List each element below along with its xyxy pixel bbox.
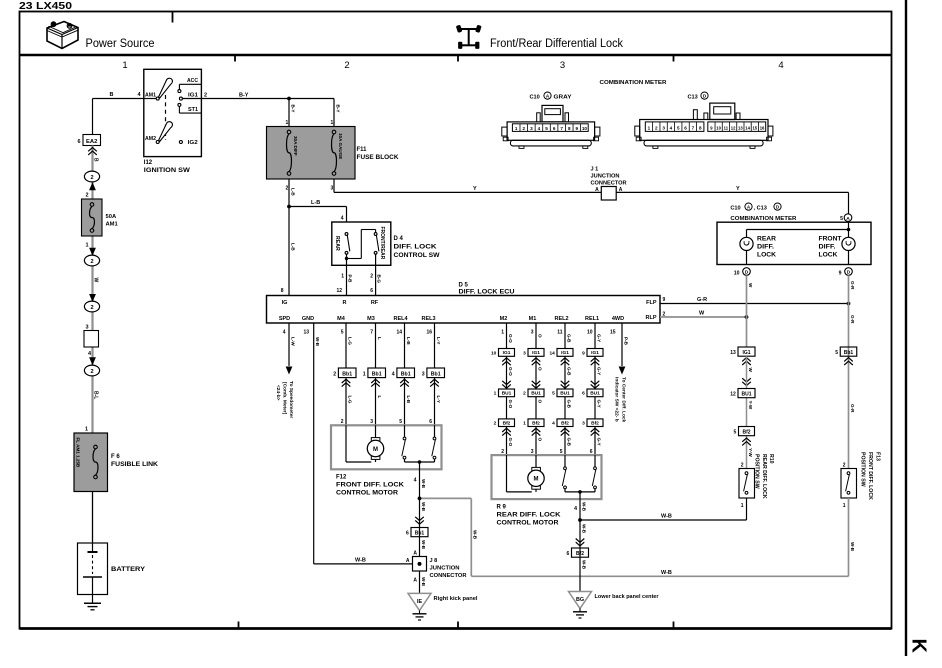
svg-text:1: 1 xyxy=(501,330,504,336)
connector C10 label xyxy=(530,92,572,100)
svg-text:7: 7 xyxy=(370,330,373,336)
svg-text:IG1: IG1 xyxy=(532,350,540,356)
svg-text:16: 16 xyxy=(426,330,432,336)
meter internal wiring xyxy=(747,228,851,238)
svg-text:2: 2 xyxy=(90,305,93,311)
svg-text:11: 11 xyxy=(724,126,729,131)
svg-text:M4: M4 xyxy=(337,316,346,322)
connector 6 Bb1 ground xyxy=(406,528,428,537)
wire O segments col2 xyxy=(536,323,542,455)
junction connector J1 xyxy=(591,167,627,201)
wire W segments r10 xyxy=(746,356,748,468)
junction dot L-B xyxy=(287,205,291,209)
svg-text:50A: 50A xyxy=(106,214,117,220)
svg-text:G-R: G-R xyxy=(850,281,855,290)
wire L-W speedometer xyxy=(286,323,296,375)
svg-text:F12: F12 xyxy=(336,475,347,481)
svg-text:AM1: AM1 xyxy=(106,222,119,228)
svg-text:1: 1 xyxy=(122,60,127,71)
svg-text:8: 8 xyxy=(568,126,571,131)
header separator line xyxy=(20,54,892,56)
pin 1 ECU rear wire xyxy=(501,330,504,336)
switch REAR xyxy=(334,233,350,296)
svg-text:F11: F11 xyxy=(357,147,368,153)
svg-text:3: 3 xyxy=(422,372,425,378)
ground IE right kick panel xyxy=(408,593,478,620)
svg-text:G-R: G-R xyxy=(850,315,855,324)
wire W-B rear motor to BG xyxy=(580,499,586,591)
svg-text:W-B: W-B xyxy=(421,540,426,550)
svg-text:W-B: W-B xyxy=(315,337,320,347)
svg-text:5: 5 xyxy=(677,126,680,131)
svg-text:J 1: J 1 xyxy=(591,167,599,173)
svg-text:W: W xyxy=(92,278,98,283)
ground below battery xyxy=(84,595,101,610)
switch contact 5 front xyxy=(402,425,406,462)
wire label B rotated xyxy=(92,158,98,162)
svg-text:IG2: IG2 xyxy=(188,140,198,146)
svg-text:A: A xyxy=(406,558,410,564)
pin 5 rear motor xyxy=(560,449,563,455)
pin 6 ECU RF xyxy=(370,288,373,294)
wire B from battery column to ignition switch xyxy=(93,99,144,135)
ignition switch I12 box xyxy=(144,69,202,156)
svg-text:Bb1: Bb1 xyxy=(415,531,425,537)
svg-text:O: O xyxy=(537,438,542,442)
svg-text:Bf2: Bf2 xyxy=(576,551,584,557)
svg-text:W-B: W-B xyxy=(581,524,586,534)
chevron below IG1 col1 xyxy=(502,358,511,365)
position switch R10 box xyxy=(739,469,755,499)
wire label W-B rotated riser xyxy=(473,530,478,540)
pin 4 junction box xyxy=(88,351,92,357)
svg-text:Bf2: Bf2 xyxy=(591,420,599,426)
svg-text:4: 4 xyxy=(538,126,541,131)
connector 3 Bb1 col4 xyxy=(422,368,445,378)
svg-text:G-B: G-B xyxy=(566,334,571,343)
svg-text:W-B: W-B xyxy=(661,570,672,576)
svg-text:REL4: REL4 xyxy=(393,316,408,322)
svg-text:G-Y: G-Y xyxy=(596,438,601,446)
svg-text:2: 2 xyxy=(286,186,289,192)
svg-text:W-B: W-B xyxy=(581,560,586,570)
combination meter caption top xyxy=(600,80,668,86)
svg-text:J 8: J 8 xyxy=(430,558,438,564)
svg-text:CONTROL MOTOR: CONTROL MOTOR xyxy=(497,520,560,526)
pin 2 of fuse AM1 xyxy=(85,193,88,199)
svg-text:W: W xyxy=(748,368,753,373)
terminal IG1 xyxy=(179,93,201,101)
svg-text:Lower back panel center: Lower back panel center xyxy=(595,594,660,600)
svg-text:REL3: REL3 xyxy=(421,316,435,322)
battery icon header xyxy=(47,22,78,49)
svg-text:8: 8 xyxy=(281,288,284,294)
svg-text:Y-W: Y-W xyxy=(748,401,753,410)
connector 9 IG1 col4 xyxy=(582,349,603,357)
svg-text:L-B: L-B xyxy=(406,337,411,345)
svg-text:9: 9 xyxy=(582,350,585,356)
svg-text:12: 12 xyxy=(336,288,342,294)
svg-text:4: 4 xyxy=(778,60,783,71)
wire L-B ECU to Bb1 col3 xyxy=(405,323,411,368)
rear motor R9 box xyxy=(492,455,602,499)
pin 1 fuse 10A xyxy=(331,120,334,126)
svg-text:6: 6 xyxy=(553,126,556,131)
pin 1 R10 xyxy=(741,503,744,509)
svg-text:L: L xyxy=(377,396,382,399)
grid tick bottom x458 xyxy=(457,622,459,630)
svg-text:L-B: L-B xyxy=(406,396,411,404)
svg-text:10: 10 xyxy=(716,126,721,131)
svg-text:BU1: BU1 xyxy=(590,391,600,397)
svg-text:C13: C13 xyxy=(688,94,698,100)
svg-text:11: 11 xyxy=(557,330,563,336)
wire label G-R rotated a xyxy=(850,281,855,290)
svg-text:12: 12 xyxy=(730,392,736,398)
svg-text:L-Y: L-Y xyxy=(436,396,441,403)
svg-text:M1: M1 xyxy=(529,316,537,322)
terminal AM1 xyxy=(144,93,159,101)
svg-text:6: 6 xyxy=(582,391,585,397)
wire L-Y ECU to Bb1 col4 xyxy=(435,323,441,368)
wire L-B Bb1 to motor col3 xyxy=(405,378,411,426)
svg-text:REAR: REAR xyxy=(334,236,340,251)
svg-text:LOCK: LOCK xyxy=(819,253,839,259)
svg-text:Bb1: Bb1 xyxy=(342,372,352,378)
svg-text:6: 6 xyxy=(370,288,373,294)
chevron down front ground xyxy=(415,517,424,524)
svg-text:ACC: ACC xyxy=(187,78,198,84)
svg-text:BU1: BU1 xyxy=(502,391,512,397)
svg-text:Bf2: Bf2 xyxy=(742,430,750,436)
svg-text:BU1: BU1 xyxy=(741,392,751,398)
svg-text:4: 4 xyxy=(392,372,395,378)
junction dot rear motor ground xyxy=(578,518,582,522)
svg-text:COMBINATION METER: COMBINATION METER xyxy=(730,216,797,222)
grid tick bottom x673 xyxy=(673,622,675,630)
svg-text:RLP: RLP xyxy=(646,315,657,321)
pin 13 ECU GND xyxy=(303,330,309,336)
svg-text:6: 6 xyxy=(406,531,409,537)
text front diff lock xyxy=(819,236,842,258)
wire W-B F13 ground run xyxy=(420,498,849,576)
ECU top pin names xyxy=(282,300,657,321)
wire L-B fuse to ECU IG xyxy=(289,179,295,296)
svg-text:Bb1: Bb1 xyxy=(431,372,441,378)
svg-text:C10: C10 xyxy=(530,94,540,100)
pin 16 ECU wire xyxy=(426,330,432,336)
svg-text:1: 1 xyxy=(363,372,366,378)
svg-text:4: 4 xyxy=(341,216,344,222)
chevron below IG1 col3 xyxy=(561,358,570,365)
svg-text:R: R xyxy=(343,300,347,306)
svg-text:9: 9 xyxy=(663,297,666,303)
svg-text:W-B: W-B xyxy=(421,479,426,489)
wire G-R FLP to meter xyxy=(660,297,849,304)
svg-text:L-B: L-B xyxy=(290,243,295,251)
svg-text:<24-b>: <24-b> xyxy=(275,385,281,401)
chevron below IG1 col2 xyxy=(532,358,541,365)
wire L-B branch to control switch xyxy=(289,200,347,222)
svg-text:W-B: W-B xyxy=(421,577,426,587)
pin 3 junction box xyxy=(85,325,88,331)
svg-text:2: 2 xyxy=(344,60,349,71)
connector 6 Bf2 ground xyxy=(567,548,589,557)
svg-text:IGNITION SW: IGNITION SW xyxy=(144,168,190,174)
title text 23 LX450 xyxy=(19,0,72,12)
grid tick top border xyxy=(172,11,174,23)
wire Y fuse 10A to meter xyxy=(334,179,849,214)
wire B-Y ignition to fuse block xyxy=(201,93,334,99)
svg-text:I12: I12 xyxy=(144,160,153,166)
svg-text:5: 5 xyxy=(341,330,344,336)
pin 3 rear motor xyxy=(531,449,534,455)
svg-text:1: 1 xyxy=(515,126,518,131)
column number 3 xyxy=(560,60,565,71)
junction dot B-Y xyxy=(287,97,291,101)
svg-text:G-B: G-B xyxy=(566,438,571,447)
svg-text:Y-W: Y-W xyxy=(748,448,753,457)
svg-text:IG: IG xyxy=(282,300,288,306)
wire W meter to connector IG1 xyxy=(746,275,748,347)
chevron above BU1 r10 xyxy=(742,378,751,385)
svg-text:1: 1 xyxy=(648,126,651,131)
svg-text:5: 5 xyxy=(545,126,548,131)
svg-text:B-G: B-G xyxy=(376,275,381,284)
connector 5 Bb1 f13 xyxy=(835,347,856,356)
svg-text:13: 13 xyxy=(303,330,309,336)
svg-text:REAR DIFF. LOCK: REAR DIFF. LOCK xyxy=(761,454,767,499)
pin 2 rear motor xyxy=(501,449,504,455)
combination meter caption xyxy=(730,216,797,222)
splice ellipse 2 a xyxy=(84,171,99,190)
chevron below IG1 col4 xyxy=(591,358,600,365)
pin 1 sw REAR xyxy=(341,274,344,280)
connector 5 Bf2 r10 xyxy=(734,427,755,436)
svg-text:W: W xyxy=(748,283,753,288)
chevron below Bb1 f13 xyxy=(844,358,853,365)
svg-text:14: 14 xyxy=(549,350,555,356)
svg-text:A: A xyxy=(846,216,850,222)
connector EA2 xyxy=(77,135,100,146)
pin 10 ECU rear wire xyxy=(587,330,593,336)
svg-text:7: 7 xyxy=(692,126,695,131)
dashed link ignition xyxy=(165,95,167,140)
svg-text:6: 6 xyxy=(429,419,432,425)
chevron below Bb1 col1 xyxy=(342,379,351,386)
connector C13 drawing xyxy=(635,103,773,148)
pin 5 A meter xyxy=(840,214,852,230)
svg-text:2: 2 xyxy=(204,93,207,99)
svg-text:EA2: EA2 xyxy=(86,139,97,145)
svg-text:2: 2 xyxy=(741,463,744,469)
svg-text:CONTROL SW: CONTROL SW xyxy=(394,253,440,259)
gray feed wire EA2 to fusible link xyxy=(91,146,93,434)
label B xyxy=(110,92,114,98)
svg-text:1: 1 xyxy=(341,274,344,280)
battery B1 xyxy=(78,543,146,595)
svg-text:D 4: D 4 xyxy=(394,236,404,242)
splice ellipse 2 c xyxy=(84,294,99,312)
svg-text:CONNECTOR: CONNECTOR xyxy=(591,181,627,187)
svg-text:D: D xyxy=(745,270,749,276)
svg-text:5: 5 xyxy=(552,391,555,397)
wire P-B center diff xyxy=(619,323,629,375)
lamp front diff lock xyxy=(842,237,855,250)
svg-text:B: B xyxy=(92,158,98,162)
svg-text:F 6: F 6 xyxy=(111,454,120,460)
fuse 50A AM1 xyxy=(82,199,119,236)
svg-text:IE: IE xyxy=(417,599,422,605)
wire fusible link to battery xyxy=(92,492,94,544)
svg-text:DIFF.: DIFF. xyxy=(757,245,774,251)
svg-text:B: B xyxy=(110,92,114,98)
pin 2 F13 xyxy=(843,463,846,469)
wire L-G ECU to Bb1 col1 xyxy=(346,323,352,368)
svg-text:14: 14 xyxy=(745,126,750,131)
svg-text:REL2: REL2 xyxy=(554,316,568,322)
wire label G-R rotated c xyxy=(850,404,855,413)
svg-text:3: 3 xyxy=(560,60,565,71)
svg-text:2: 2 xyxy=(341,419,344,425)
svg-text:IG1: IG1 xyxy=(503,350,511,356)
pin 4 rear motor ground xyxy=(574,506,577,512)
svg-text:C10: C10 xyxy=(730,206,740,212)
wire label Y-W rotated a xyxy=(748,401,753,410)
svg-text:Front/Rear Differential Lock: Front/Rear Differential Lock xyxy=(490,38,623,50)
svg-text:CONNECTOR: CONNECTOR xyxy=(430,573,467,579)
connector 14 IG1 col3 xyxy=(549,349,573,357)
svg-text:G-O: G-O xyxy=(508,400,513,409)
svg-text:3: 3 xyxy=(662,126,665,131)
connector 1 Bb1 col2 xyxy=(363,368,386,378)
svg-text:A: A xyxy=(619,187,623,193)
svg-text:Bb1: Bb1 xyxy=(844,350,854,356)
note to center diff lock xyxy=(613,377,626,423)
svg-text:5: 5 xyxy=(399,419,402,425)
wire label W rotated b xyxy=(748,368,753,373)
svg-text:L-B: L-B xyxy=(311,200,320,206)
connector 1 BU1 col1 xyxy=(494,389,515,397)
svg-text:IG1: IG1 xyxy=(561,350,569,356)
combination meter box xyxy=(717,222,871,264)
svg-text:9: 9 xyxy=(576,126,579,131)
svg-text:BU1: BU1 xyxy=(560,391,570,397)
wire label B-G rotated xyxy=(376,275,381,284)
svg-text:3: 3 xyxy=(582,421,585,427)
connector 3 Bf2 col4 xyxy=(582,419,603,427)
wire W RLP to meter xyxy=(660,311,747,318)
svg-text:8: 8 xyxy=(699,126,702,131)
connector chevron below EA2 xyxy=(88,148,97,155)
chevron below Bf2 col4 xyxy=(591,428,600,435)
control switch D4 box xyxy=(332,222,391,265)
splice ellipse 2 d xyxy=(84,357,99,376)
wire label W rotated xyxy=(92,278,98,283)
svg-text:6: 6 xyxy=(567,551,570,557)
svg-text:AM1: AM1 xyxy=(145,93,156,99)
rear motor common bar xyxy=(565,490,595,499)
svg-text:1: 1 xyxy=(85,427,88,433)
svg-text:1: 1 xyxy=(523,421,526,427)
pin 6 front motor xyxy=(429,419,432,425)
svg-text:IG1: IG1 xyxy=(742,350,750,356)
pin 9 D meter xyxy=(839,268,853,277)
svg-text:BATTERY: BATTERY xyxy=(111,567,145,573)
svg-text:FUSE BLOCK: FUSE BLOCK xyxy=(357,155,400,161)
pin 10 D meter xyxy=(734,268,751,277)
svg-text:LOCK: LOCK xyxy=(757,253,777,259)
svg-text:3: 3 xyxy=(370,419,373,425)
svg-text:2: 2 xyxy=(370,274,373,280)
terminal ACC xyxy=(178,78,202,93)
svg-text:4: 4 xyxy=(574,506,577,512)
svg-text:B-L: B-L xyxy=(92,391,98,399)
svg-text:Bf2: Bf2 xyxy=(532,420,540,426)
pin 14 ECU wire xyxy=(396,330,402,336)
front motor common bar xyxy=(405,460,435,469)
fuse block name xyxy=(357,147,400,161)
front/rear differential lock icon xyxy=(456,25,482,49)
svg-text:P-B: P-B xyxy=(623,337,628,346)
lever AM1 xyxy=(159,78,173,98)
connector 2 Bf2 col1 xyxy=(494,419,515,427)
svg-text:G-O: G-O xyxy=(508,367,513,376)
fuse 10A GAUGE xyxy=(332,130,344,175)
svg-text:COMBINATION METER: COMBINATION METER xyxy=(600,80,668,86)
svg-text:1: 1 xyxy=(85,243,88,249)
position switch R10 name xyxy=(754,454,775,499)
junction block box xyxy=(84,331,99,348)
svg-text:A: A xyxy=(595,187,599,193)
pin 4 ECU SPD xyxy=(283,330,286,336)
svg-text:2: 2 xyxy=(494,421,497,427)
text rear diff lock xyxy=(757,236,777,258)
pin 6 rear motor xyxy=(590,449,593,455)
junction dot front motor ground xyxy=(418,497,422,501)
svg-text:JUNCTION: JUNCTION xyxy=(591,174,620,180)
note to speedometer xyxy=(275,381,294,418)
column number 4 xyxy=(778,60,783,71)
svg-text:1: 1 xyxy=(843,503,846,509)
svg-text:O: O xyxy=(537,400,542,404)
svg-text:DIFF. LOCK: DIFF. LOCK xyxy=(394,245,438,251)
svg-text:, C13: , C13 xyxy=(754,206,767,212)
terminal AM2 xyxy=(145,136,159,144)
svg-text:F13: F13 xyxy=(875,452,881,461)
svg-text:5: 5 xyxy=(835,350,838,356)
terminal ST1 xyxy=(178,103,202,113)
svg-text:L: L xyxy=(377,337,382,340)
svg-text:Y: Y xyxy=(736,186,740,192)
svg-text:POSITION SW: POSITION SW xyxy=(754,454,760,489)
grid tick header x458 xyxy=(457,55,459,62)
svg-text:Bb1: Bb1 xyxy=(372,372,382,378)
svg-text:K: K xyxy=(908,639,930,654)
chevron down rear ground xyxy=(576,539,585,546)
svg-text:POSITION SW: POSITION SW xyxy=(860,452,866,487)
connector 6 BU1 col4 xyxy=(582,389,603,397)
svg-text:IG1: IG1 xyxy=(591,350,599,356)
svg-text:2: 2 xyxy=(523,391,526,397)
svg-text:REAR DIFF. LOCK: REAR DIFF. LOCK xyxy=(497,512,562,518)
wire B-Y drop to fuse 10A xyxy=(334,99,340,127)
svg-text:14: 14 xyxy=(396,330,402,336)
connector 3 IG1 col2 xyxy=(523,349,544,357)
svg-text:30A DIFF: 30A DIFF xyxy=(293,136,298,156)
wire label Y-W rotated b xyxy=(748,448,753,457)
svg-text:Bb1: Bb1 xyxy=(401,372,411,378)
